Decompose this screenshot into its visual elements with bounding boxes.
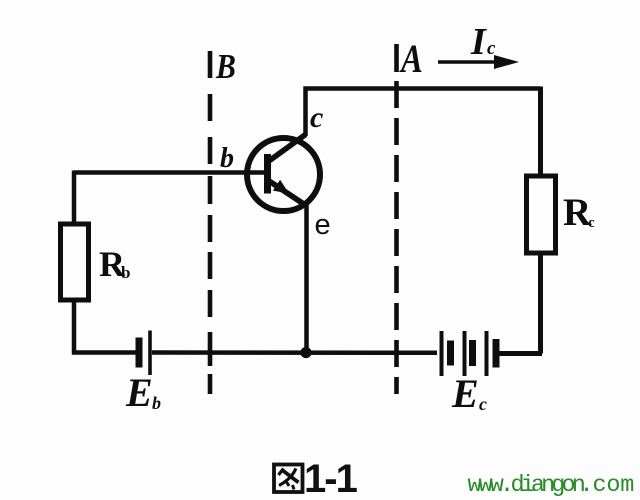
wire left vertical from Rb down to bottom wire (72, 300, 77, 355)
transistor Q1 collector stroke (268, 135, 306, 163)
svg-text:com: com (593, 472, 635, 499)
svg-text:e: e (315, 209, 331, 241)
label Eb (125, 370, 161, 415)
wire left vertical from base wire down to resistor Rb (72, 171, 77, 225)
battery Ec cell3 long plate (485, 331, 489, 376)
battery Eb long thin plate (148, 331, 152, 376)
svg-text:.: . (580, 472, 594, 499)
resistor Rb (61, 224, 89, 300)
wire bottom-left from left corner to battery Eb (72, 350, 136, 355)
label Rb (99, 244, 130, 284)
wire bottom-right from battery Ec to right corner (499, 351, 542, 356)
battery Ec cell1 long plate (440, 331, 444, 376)
battery Eb short thick plate (136, 338, 143, 368)
dashed section line A (394, 44, 399, 394)
battery Ec cell3 short thick plate (493, 339, 500, 368)
current arrow for Ic (438, 60, 500, 64)
svg-text:c: c (479, 394, 487, 414)
label Rc (563, 191, 595, 234)
svg-text:b: b (152, 393, 161, 413)
wire collector vertical up to top wire (303, 87, 308, 137)
transistor Q1 emitter stroke (268, 180, 308, 207)
transistor Q1 base bar (264, 154, 271, 194)
wire right vertical from Rc down to bottom-right corner (538, 253, 543, 354)
svg-text:A: A (399, 36, 423, 81)
wire base horizontal from Rb top corner to transistor base bar (74, 170, 266, 175)
label Ec (451, 371, 487, 416)
svg-text:1-1: 1-1 (304, 457, 358, 500)
svg-text:c: c (310, 101, 323, 134)
watermark www.diangon.com (468, 472, 635, 499)
caption 图1-1 : hand-drawn 图 glyph (274, 465, 303, 493)
battery Ec cell2 short thick plate (469, 340, 476, 366)
resistor Rc (527, 176, 556, 253)
svg-text:www: www (468, 472, 504, 499)
svg-text:I: I (470, 21, 487, 63)
wire emitter vertical from transistor to bottom wire (304, 205, 309, 352)
svg-text:B: B (215, 48, 236, 87)
current label Ic (470, 21, 496, 63)
wire top from collector to right side (304, 86, 541, 91)
transistor Q1 circle (247, 138, 320, 211)
node junction emitter/bottom wire (300, 347, 311, 358)
battery Ec cell2 long plate (463, 331, 467, 376)
svg-text:E: E (451, 371, 479, 416)
wire right vertical from top wire down to Rc (538, 87, 543, 177)
svg-text:E: E (125, 370, 153, 415)
svg-text:c: c (588, 215, 595, 231)
battery Ec cell1 short thick plate (447, 341, 454, 366)
svg-text:diangon: diangon (511, 472, 585, 499)
wire bottom-middle from battery Eb to battery Ec (152, 350, 437, 355)
transistor Q1 emitter arrowhead (273, 180, 289, 194)
svg-text:b: b (121, 263, 130, 282)
svg-text:b: b (220, 143, 234, 174)
dashed section line B (208, 51, 213, 394)
